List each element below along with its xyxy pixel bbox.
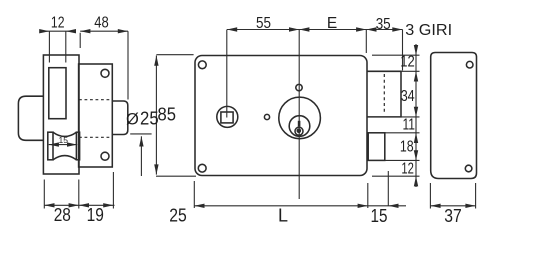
arrowhead 35 left — [366, 27, 376, 31]
right stack extension y176 (body bottom) — [372, 175, 420, 177]
arrowhead 28 left — [44, 203, 54, 207]
latch protrusion side view — [112, 101, 128, 135]
hidden line lower — [79, 136, 112, 138]
dim 15 line — [368, 205, 406, 207]
arrowhead dia25 — [139, 136, 143, 146]
right stack dim line segments — [415, 44, 417, 187]
arrowhead 19 right — [103, 203, 113, 207]
svg-text:L: L — [278, 205, 288, 225]
strike box front view — [431, 53, 477, 179]
svg-text:55: 55 — [256, 15, 271, 32]
svg-text:11: 11 — [402, 117, 415, 134]
arrowhead L right — [358, 204, 368, 208]
latch bolt box — [368, 133, 385, 161]
screw hole top (side view) — [101, 69, 109, 77]
svg-text:25: 25 — [169, 205, 187, 225]
cylinder protrusion — [18, 96, 43, 140]
dim 85 top extension — [156, 54, 193, 56]
strike box screw hole top — [466, 61, 473, 68]
cylinder rosette circle — [279, 97, 321, 139]
arrowhead 18 bottom — [414, 150, 418, 160]
bottom extension body right — [367, 183, 369, 208]
svg-text:37: 37 — [444, 206, 462, 226]
dim 48 extension right — [127, 31, 129, 99]
svg-text:12: 12 — [401, 161, 414, 178]
svg-text:48: 48 — [94, 15, 109, 32]
svg-text:Ø25: Ø25 — [126, 109, 159, 129]
handle follower circle — [217, 106, 238, 127]
arrowhead 3giri down — [414, 45, 418, 55]
arrowhead 35 right — [392, 27, 402, 31]
right stack extension y71 (bolt top) — [401, 70, 420, 72]
arrowhead dim12 left — [39, 29, 49, 33]
svg-text:28: 28 — [54, 205, 71, 225]
dim L line — [194, 205, 367, 207]
arrowhead dim48 right — [118, 29, 128, 33]
deadbolt tip extension — [402, 30, 404, 71]
arrowhead L left — [194, 204, 204, 208]
dim 48 extension stub — [79, 33, 81, 48]
dia 25 leader arrow shaft — [140, 136, 142, 176]
arrowhead 12 bottom up — [414, 176, 418, 186]
screw hole bottom (side view) — [101, 152, 109, 160]
arrowhead dim48 left — [80, 29, 90, 33]
deadbolt box — [367, 71, 401, 117]
roller spool waist bottom curve — [53, 156, 76, 160]
arrowhead 28 right — [69, 203, 79, 207]
top dim line 55 E 35 — [227, 29, 403, 31]
svg-text:12: 12 — [400, 54, 415, 71]
dim 37 extension left — [429, 183, 431, 209]
roller spool waist top curve — [53, 132, 76, 136]
dim 37 line — [430, 205, 475, 207]
dim 85 line — [155, 56, 157, 175]
dia 25 leader underline — [130, 133, 151, 135]
mounting plate side view — [79, 64, 113, 167]
svg-text:15: 15 — [59, 135, 69, 145]
bottom extension body left — [193, 181, 195, 208]
dim 85 bottom extension — [156, 175, 196, 177]
arrowhead 37 right — [465, 204, 475, 208]
strike box screw hole bottom — [465, 165, 472, 172]
bottom extension latch tip — [387, 171, 389, 206]
arrowhead 18 top — [414, 133, 418, 143]
arrowhead 37 left — [430, 204, 440, 208]
arrowhead 15 right outside — [388, 204, 398, 208]
small hole above cylinder — [296, 84, 302, 90]
side view cylinder housing inner rect — [49, 68, 66, 119]
svg-text:34: 34 — [401, 88, 415, 105]
handle follower square — [221, 112, 233, 123]
dim 28 19 line — [44, 204, 114, 206]
dim 48 line — [80, 30, 128, 32]
svg-text:3 GIRI: 3 GIRI — [405, 22, 452, 39]
arrowhead 85 top — [154, 56, 158, 66]
front view lock body — [195, 56, 367, 176]
right stack extension y133 (latch top) — [385, 132, 420, 134]
arrowhead roller right — [67, 142, 77, 146]
right stack extension y55 — [372, 54, 420, 56]
svg-text:E: E — [327, 15, 337, 32]
follower extension line — [226, 30, 228, 118]
svg-text:12: 12 — [51, 15, 65, 32]
arrowhead 34 bottom — [414, 107, 418, 117]
arrowhead 85 bottom — [154, 164, 158, 174]
svg-text:19: 19 — [87, 205, 104, 225]
arrowhead dim12 right — [66, 29, 76, 33]
arrowhead E right — [356, 27, 366, 31]
svg-text:85: 85 — [158, 104, 177, 124]
arrowhead 55 right — [289, 27, 299, 31]
dim 37 extension right — [475, 183, 477, 209]
roller spool left flange — [48, 132, 53, 160]
small hole between follower and cylinder — [264, 114, 269, 119]
right stack extension y117 (bolt bottom) — [401, 116, 420, 118]
cylinder body circle — [289, 116, 310, 137]
dim 12 line — [41, 30, 75, 32]
svg-text:15: 15 — [371, 206, 388, 226]
screw hole top-left (front view) — [198, 61, 206, 69]
hidden line upper — [79, 99, 112, 101]
screw hole bottom-left (front view) — [198, 164, 206, 172]
arrowhead 19 left — [79, 203, 89, 207]
roller spool right flange — [76, 132, 79, 160]
right stack extension y160 (latch bottom) — [385, 159, 420, 161]
body right edge extension up — [365, 30, 367, 54]
side view lock case body — [43, 55, 79, 174]
svg-text:18: 18 — [400, 138, 414, 155]
svg-text:35: 35 — [376, 16, 391, 33]
key silhouette in cylinder — [298, 121, 301, 127]
dim 12 extension lines — [48, 31, 50, 62]
cylinder center line — [298, 30, 300, 200]
dim 28 19 extensions — [43, 180, 45, 209]
deadbolt hidden center line — [383, 74, 385, 115]
roller 15 dim line — [49, 144, 77, 146]
arrowhead 34 top — [414, 71, 418, 81]
arrowhead 55 left — [227, 27, 237, 31]
cylinder plug circle — [295, 127, 303, 135]
arrowhead E left — [299, 27, 309, 31]
arrowhead roller left — [49, 142, 59, 146]
